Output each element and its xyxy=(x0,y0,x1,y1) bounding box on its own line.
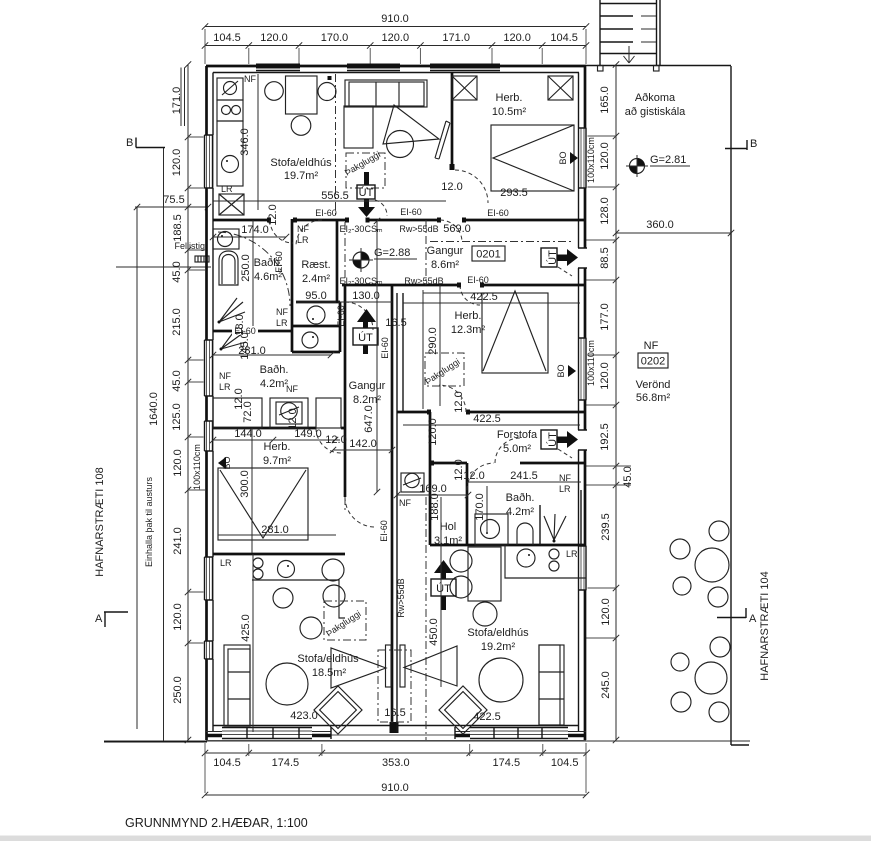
fellistigi projection line xyxy=(116,266,211,268)
svg-text:Gangur: Gangur xyxy=(427,245,464,257)
UT exit stofa 19.2 xyxy=(434,560,453,610)
window bottom left apt xyxy=(222,728,312,739)
wall stofa/herb divider top xyxy=(451,72,454,169)
svg-text:45.0: 45.0 xyxy=(622,466,634,487)
raest left wall xyxy=(291,219,294,352)
door arc forstofa xyxy=(495,438,520,463)
svg-text:188.5: 188.5 xyxy=(172,214,184,242)
dim 360 veranda xyxy=(616,232,731,234)
svg-text:Rw>55dB: Rw>55dB xyxy=(399,224,438,234)
svg-text:170.0: 170.0 xyxy=(321,32,349,44)
svg-text:ÚT: ÚT xyxy=(436,582,451,595)
skylight herb 12.3 xyxy=(425,353,464,386)
svg-text:B: B xyxy=(750,138,757,150)
svg-text:18.5m²: 18.5m² xyxy=(312,667,347,679)
svg-text:Verönd: Verönd xyxy=(636,379,671,391)
svg-text:95.0: 95.0 xyxy=(305,290,326,302)
svg-text:239.5: 239.5 xyxy=(600,513,612,541)
svg-text:169.0: 169.0 xyxy=(419,483,447,495)
raest/wc walls xyxy=(292,302,340,352)
svg-text:Rw>55dB: Rw>55dB xyxy=(396,578,406,617)
svg-text:Aðkoma: Aðkoma xyxy=(635,92,676,104)
svg-text:10.5m²: 10.5m² xyxy=(492,106,527,118)
dim 170 xyxy=(486,486,488,534)
section marker B left xyxy=(136,138,165,148)
svg-text:NF: NF xyxy=(219,371,231,381)
svg-text:1640.0: 1640.0 xyxy=(148,392,160,426)
svg-text:NF: NF xyxy=(276,307,288,317)
wc-block right wall xyxy=(336,220,339,302)
svg-text:647.0: 647.0 xyxy=(363,405,375,433)
svg-text:100x110cm: 100x110cm xyxy=(192,444,202,490)
svg-text:NF: NF xyxy=(244,74,256,84)
svg-text:360.0: 360.0 xyxy=(646,219,674,231)
bottom dim chain segments xyxy=(205,752,587,754)
svg-text:EI₂-30CSₘ: EI₂-30CSₘ xyxy=(339,276,383,286)
table stofa 18.5 xyxy=(266,663,308,705)
svg-text:HAFNARSTRÆTI 108: HAFNARSTRÆTI 108 xyxy=(94,467,106,576)
kitchen stofa 19.2 xyxy=(505,545,586,578)
window left 2 xyxy=(204,340,214,396)
dim 647 xyxy=(374,218,380,495)
svg-text:45.0: 45.0 xyxy=(171,370,183,391)
svg-text:130.0: 130.0 xyxy=(352,290,380,302)
svg-text:NF: NF xyxy=(286,384,298,394)
site boundary left line xyxy=(136,207,138,729)
svg-text:281.0: 281.0 xyxy=(261,524,289,536)
svg-text:125.0: 125.0 xyxy=(171,403,183,431)
svg-text:75.5: 75.5 xyxy=(163,194,184,206)
fellistigi hatch xyxy=(195,256,209,262)
svg-text:120.0: 120.0 xyxy=(172,603,184,631)
svg-text:Rw>55dB: Rw>55dB xyxy=(404,276,443,286)
window bottom right apt xyxy=(470,728,568,739)
svg-text:LR: LR xyxy=(559,484,571,494)
svg-text:5.0m²: 5.0m² xyxy=(503,443,531,455)
dim 12/241.5 badh4.2b xyxy=(467,481,581,483)
G symbol gangur A xyxy=(353,252,369,268)
table stofa 19.2 xyxy=(479,658,523,702)
wc sinks xyxy=(307,306,325,324)
sofa stofa 18.5 xyxy=(224,645,250,726)
door arc herb12.3 xyxy=(439,385,466,412)
svg-text:EI-60: EI-60 xyxy=(336,305,346,327)
svg-text:EI-60: EI-60 xyxy=(274,251,284,273)
party wall dashdot xyxy=(425,497,427,740)
door arc raest xyxy=(296,220,322,246)
svg-text:170.0: 170.0 xyxy=(474,493,486,521)
svg-text:Hol: Hol xyxy=(440,521,457,533)
svg-text:Baðh.: Baðh. xyxy=(506,492,535,504)
dim 142 xyxy=(330,447,395,453)
badh 4.2 bottom wall / herb 9.7 top xyxy=(213,427,345,430)
svg-text:Herb.: Herb. xyxy=(455,310,482,322)
svg-text:450.0: 450.0 xyxy=(428,618,440,646)
svg-text:910.0: 910.0 xyxy=(381,13,409,25)
window right 3 xyxy=(578,546,588,590)
svg-text:104.5: 104.5 xyxy=(551,757,579,769)
dining table stofa 19.7 xyxy=(286,76,318,114)
dim 174 xyxy=(210,234,289,240)
ground line bottom xyxy=(104,740,750,742)
UT exit gangur A right xyxy=(541,248,557,267)
svg-text:104.5: 104.5 xyxy=(213,32,241,44)
UT exit top xyxy=(364,172,369,185)
svg-text:16.5: 16.5 xyxy=(385,317,406,329)
svg-text:12.0: 12.0 xyxy=(441,181,462,193)
flat number 0201 xyxy=(472,246,505,261)
svg-text:B: B xyxy=(126,137,133,149)
window left 4 xyxy=(204,557,214,600)
dim 144/149/12 xyxy=(210,437,340,443)
svg-text:188.0: 188.0 xyxy=(429,493,441,521)
bottom dim 910 xyxy=(205,794,586,796)
window left 3 xyxy=(204,421,214,451)
svg-text:174.0: 174.0 xyxy=(241,224,269,236)
wardrobes herb 10.5 xyxy=(452,76,477,100)
svg-text:3.1m²: 3.1m² xyxy=(434,535,462,547)
balcony doors bowties xyxy=(331,646,457,688)
party wall bottom apts xyxy=(391,497,394,732)
svg-text:910.0: 910.0 xyxy=(381,782,409,794)
svg-text:88.5: 88.5 xyxy=(599,247,611,268)
svg-text:Forstofa: Forstofa xyxy=(497,429,538,441)
svg-text:120.0: 120.0 xyxy=(503,32,531,44)
svg-text:G=2.88: G=2.88 xyxy=(374,247,410,259)
svg-text:12.0: 12.0 xyxy=(287,408,299,429)
svg-text:422.5: 422.5 xyxy=(473,413,501,425)
svg-text:120.0: 120.0 xyxy=(172,449,184,477)
svg-text:56.8m²: 56.8m² xyxy=(636,392,671,404)
svg-text:19.2m²: 19.2m² xyxy=(481,641,516,653)
top dim chain segments xyxy=(205,45,586,47)
sofa stofa 19.2 xyxy=(539,645,564,725)
svg-text:174.5: 174.5 xyxy=(493,757,521,769)
forstofa bottom wall xyxy=(430,462,586,465)
herb 12.3 bottom wall xyxy=(397,411,586,414)
herb 12.3 left wall xyxy=(402,293,404,412)
badh 4.2b bottom wall / kitchen top xyxy=(430,544,586,547)
svg-text:G=2.81: G=2.81 xyxy=(650,154,686,166)
trees group 1 xyxy=(709,521,729,541)
svg-text:144.0: 144.0 xyxy=(234,428,262,440)
skylight stofa 19.7 xyxy=(346,153,385,188)
svg-text:0202: 0202 xyxy=(641,356,665,368)
svg-text:9.7m²: 9.7m² xyxy=(263,455,291,467)
corridor A top wall xyxy=(213,219,586,222)
door arc herb9.7 xyxy=(316,428,341,453)
svg-text:Ræst.: Ræst. xyxy=(301,259,330,271)
svg-text:A: A xyxy=(95,613,103,625)
chair diamond stofa 19.2 xyxy=(439,686,487,734)
UT exit forstofa xyxy=(541,430,557,449)
kitchen open boundary dashdot xyxy=(335,74,337,218)
svg-text:NF: NF xyxy=(644,340,659,352)
svg-text:120.0: 120.0 xyxy=(427,418,439,446)
svg-text:145.0: 145.0 xyxy=(239,332,251,360)
svg-text:EI-60: EI-60 xyxy=(487,208,509,218)
overall dim line left (1640) xyxy=(163,147,165,741)
svg-text:174.5: 174.5 xyxy=(272,757,300,769)
hol left wall xyxy=(429,412,432,545)
window left 5 xyxy=(204,641,214,659)
vanity row badh 4.2a xyxy=(213,398,262,428)
svg-text:293.5: 293.5 xyxy=(500,187,528,199)
svg-text:422.5: 422.5 xyxy=(473,711,501,723)
svg-text:569.0: 569.0 xyxy=(443,223,471,235)
scan edge bottom xyxy=(0,836,871,841)
svg-text:142.0: 142.0 xyxy=(349,438,377,450)
svg-text:12.0: 12.0 xyxy=(453,391,465,412)
round table stofa 19.7 xyxy=(387,131,414,158)
svg-text:177.0: 177.0 xyxy=(599,303,611,331)
svg-text:LR: LR xyxy=(297,235,309,245)
kitchen counter top-left xyxy=(217,78,243,100)
sofa stofa 19.7 xyxy=(345,80,427,107)
door arc wc xyxy=(345,302,373,330)
svg-text:241.5: 241.5 xyxy=(510,470,538,482)
washer hol xyxy=(401,473,424,492)
outer wall bottom xyxy=(206,734,586,737)
svg-text:300.0: 300.0 xyxy=(239,470,251,498)
svg-text:ÚT: ÚT xyxy=(358,331,373,344)
section marker A right xyxy=(717,608,746,618)
svg-text:LR: LR xyxy=(276,318,288,328)
svg-text:556.5: 556.5 xyxy=(321,190,349,202)
svg-text:LR: LR xyxy=(221,184,233,194)
svg-text:120.0: 120.0 xyxy=(599,362,611,390)
svg-text:að gistiskála: að gistiskála xyxy=(625,106,686,118)
svg-text:8.6m²: 8.6m² xyxy=(431,259,459,271)
outer wall left xyxy=(205,66,208,740)
shower badh 4.2a xyxy=(221,330,246,349)
svg-text:ÚT: ÚT xyxy=(359,186,374,199)
shower badh 4.6 xyxy=(219,298,245,322)
svg-text:128.0: 128.0 xyxy=(599,197,611,225)
svg-text:Einhalla þak til austurs: Einhalla þak til austurs xyxy=(144,476,154,567)
dim 425 stofa18.5 xyxy=(252,554,254,732)
svg-text:Fellistigi: Fellistigi xyxy=(174,241,207,251)
svg-text:215.0: 215.0 xyxy=(171,308,183,336)
hol right wall xyxy=(466,463,469,545)
svg-text:BO: BO xyxy=(556,364,566,377)
corridor A bottom wall xyxy=(342,284,586,287)
svg-text:353.0: 353.0 xyxy=(382,757,410,769)
svg-text:Herb.: Herb. xyxy=(496,92,523,104)
svg-text:245.0: 245.0 xyxy=(600,671,612,699)
svg-text:LR: LR xyxy=(220,558,232,568)
door arc stofa18.5 xyxy=(345,497,375,527)
door gap right gangur xyxy=(577,248,587,268)
svg-text:192.5: 192.5 xyxy=(599,423,611,451)
svg-text:Herb.: Herb. xyxy=(264,441,291,453)
badh 4.2b fixtures xyxy=(475,514,508,545)
section marker B right xyxy=(725,140,747,150)
door arc corridorA right xyxy=(440,220,462,242)
svg-text:250.0: 250.0 xyxy=(172,676,184,704)
svg-text:4.2m²: 4.2m² xyxy=(506,506,534,518)
dim 290 xyxy=(439,285,441,406)
svg-text:Baðh.: Baðh. xyxy=(260,364,289,376)
svg-text:A: A xyxy=(749,613,757,625)
tv stofa 19.7 xyxy=(435,121,450,159)
svg-text:290.0: 290.0 xyxy=(427,327,439,355)
veranda top edge xyxy=(586,65,731,67)
svg-text:Stofa/eldhús: Stofa/eldhús xyxy=(297,653,359,665)
bathtub badh 4.6 xyxy=(213,229,239,249)
svg-text:104.5: 104.5 xyxy=(550,32,578,44)
balcony door opening bottom xyxy=(331,727,455,739)
downspout top-left xyxy=(181,68,185,127)
outer wall top xyxy=(206,65,586,68)
ground line left stub xyxy=(104,741,207,743)
door gap right forstofa xyxy=(577,430,587,450)
top dim chain 910 xyxy=(205,26,586,28)
window right 1 xyxy=(578,128,588,188)
door posts xyxy=(267,218,484,466)
svg-text:19.7m²: 19.7m² xyxy=(284,170,319,182)
svg-text:LR: LR xyxy=(566,549,578,559)
svg-text:120.0: 120.0 xyxy=(599,142,611,170)
svg-text:16.5: 16.5 xyxy=(384,707,405,719)
svg-text:EI-60: EI-60 xyxy=(467,275,489,285)
svg-text:45.0: 45.0 xyxy=(171,261,183,282)
svg-text:Stofa/eldhús: Stofa/eldhús xyxy=(270,157,332,169)
svg-text:EI₂-30CSₘ: EI₂-30CSₘ xyxy=(339,224,383,234)
bed herb 12.3 xyxy=(423,290,482,409)
svg-text:NF: NF xyxy=(399,498,411,508)
svg-text:LR: LR xyxy=(219,382,231,392)
svg-text:12.3m²: 12.3m² xyxy=(451,324,486,336)
svg-text:12.0: 12.0 xyxy=(267,204,279,225)
svg-text:250.0: 250.0 xyxy=(240,254,252,282)
svg-text:GRUNNMYND 2.HÆÐAR, 1:100: GRUNNMYND 2.HÆÐAR, 1:100 xyxy=(125,816,308,830)
door arc badh4.6 xyxy=(270,220,293,243)
svg-text:346.0: 346.0 xyxy=(239,128,251,156)
svg-text:241.0: 241.0 xyxy=(172,527,184,555)
window left 1 xyxy=(204,135,214,188)
svg-text:171.0: 171.0 xyxy=(442,32,470,44)
dim 250 badh4.6 xyxy=(252,220,254,326)
svg-text:422.5: 422.5 xyxy=(470,291,498,303)
right dim chain xyxy=(615,65,617,741)
svg-text:Gangur: Gangur xyxy=(349,380,386,392)
dim 450 xyxy=(440,497,442,687)
svg-text:HAFNARSTRÆTI 104: HAFNARSTRÆTI 104 xyxy=(759,571,771,680)
svg-text:EI-60: EI-60 xyxy=(315,208,337,218)
dim 130 xyxy=(338,301,392,303)
trees group 2 xyxy=(710,637,730,657)
dim 281 badh xyxy=(210,352,334,358)
svg-text:165.0: 165.0 xyxy=(599,86,611,114)
svg-text:Stofa/eldhús: Stofa/eldhús xyxy=(467,627,529,639)
decor triangle stofa19.7 xyxy=(383,105,439,144)
svg-text:120.0: 120.0 xyxy=(260,32,288,44)
site boundary right line xyxy=(731,66,749,745)
svg-text:423.0: 423.0 xyxy=(290,710,318,722)
svg-text:120.0: 120.0 xyxy=(600,598,612,626)
window right 2 xyxy=(578,338,588,400)
svg-text:EI-60: EI-60 xyxy=(380,337,390,359)
door arc herb 10.5 xyxy=(455,170,488,203)
svg-text:0201: 0201 xyxy=(476,249,500,261)
svg-text:120.0: 120.0 xyxy=(382,32,410,44)
svg-text:12.0: 12.0 xyxy=(325,434,346,446)
dim 300 herb9.7 xyxy=(251,428,253,553)
bed herb 9.7 xyxy=(218,468,308,540)
svg-text:72.0: 72.0 xyxy=(242,401,254,422)
svg-text:425.0: 425.0 xyxy=(240,614,252,642)
chair diamond stofa 18.5 xyxy=(314,686,362,734)
dim 422.5 herb12.3 xyxy=(403,302,580,304)
dim 556.5 xyxy=(213,200,446,202)
dim 95 xyxy=(296,301,336,303)
G symbol veranda xyxy=(630,159,645,174)
svg-text:EI-60: EI-60 xyxy=(400,207,422,217)
herb9.7 bottom wall / stofa18.5 top xyxy=(213,553,345,556)
herb 9.7 right wall xyxy=(344,285,347,497)
section marker A left xyxy=(104,612,128,627)
outer wall right xyxy=(584,66,587,740)
top wall lintel bars xyxy=(256,64,300,69)
dim 422.5 lower xyxy=(403,424,580,426)
UT exit gangur B xyxy=(357,309,376,354)
dim 346 xyxy=(257,74,259,210)
corridor B right wall xyxy=(391,285,394,497)
wardrobe X top-left xyxy=(219,194,244,215)
svg-text:EI-60: EI-60 xyxy=(379,520,389,542)
svg-text:12.0: 12.0 xyxy=(463,470,484,482)
svg-text:BO: BO xyxy=(558,151,568,164)
dim 281 herb9.7 xyxy=(218,534,336,536)
bed herb 10.5 xyxy=(491,125,574,191)
svg-text:104.5: 104.5 xyxy=(213,757,241,769)
left dim chain xyxy=(187,65,189,741)
separation dash-dot corridor A xyxy=(344,222,346,510)
svg-text:NF: NF xyxy=(297,224,309,234)
svg-text:120.0: 120.0 xyxy=(171,149,183,177)
skylight stofa 18.5 xyxy=(324,601,366,640)
dim 169 xyxy=(394,492,471,498)
stairs top right xyxy=(600,0,660,66)
svg-text:2.4m²: 2.4m² xyxy=(302,273,330,285)
door arc badh4.2b xyxy=(467,463,494,490)
svg-text:4.2m²: 4.2m² xyxy=(260,378,288,390)
badh 4.6 bottom wall xyxy=(213,330,292,333)
